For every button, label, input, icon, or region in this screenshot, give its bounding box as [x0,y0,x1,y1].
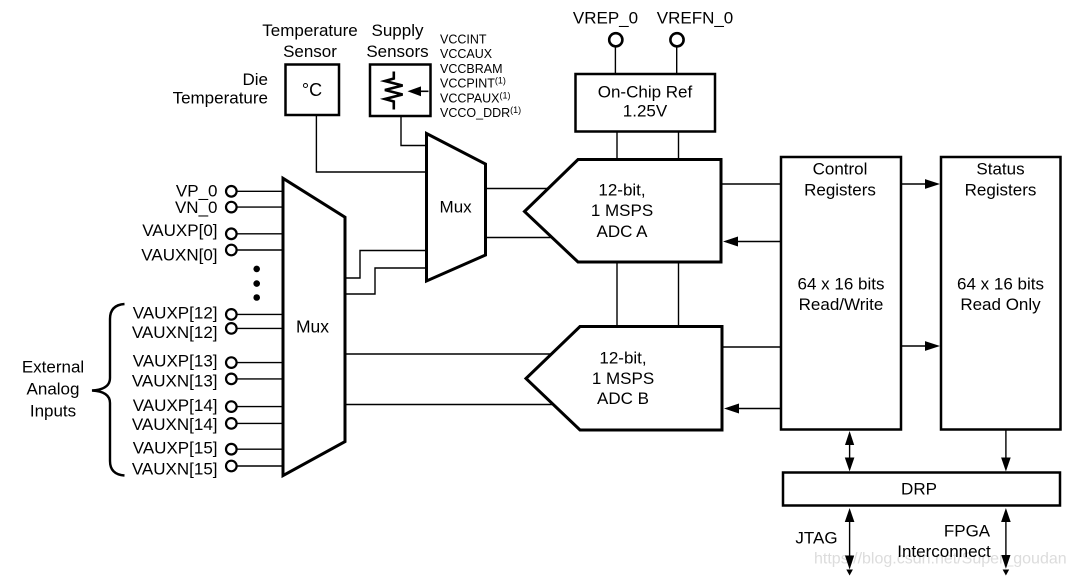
svg-text:Registers: Registers [804,181,876,200]
svg-text:Read Only: Read Only [960,295,1041,314]
svg-text:12-bit,: 12-bit, [598,180,645,199]
svg-text:VAUXP[0]: VAUXP[0] [142,221,217,240]
svg-text:On-Chip Ref: On-Chip Ref [598,83,693,102]
svg-text:Sensors: Sensors [366,42,428,61]
svg-text:JTAG: JTAG [795,529,837,548]
svg-text:VCCINT: VCCINT [440,33,487,47]
svg-text:ADC B: ADC B [597,389,649,408]
svg-text:Read/Write: Read/Write [799,295,884,314]
svg-text:DRP: DRP [901,480,937,499]
svg-text:VAUXP[14]: VAUXP[14] [133,396,218,415]
svg-text:VN_0: VN_0 [175,198,218,217]
svg-text:VAUXN[14]: VAUXN[14] [132,415,218,434]
svg-text:Analog: Analog [27,380,80,399]
svg-text:Die: Die [242,70,268,89]
svg-text:Temperature: Temperature [262,21,357,40]
svg-text:Supply: Supply [372,21,424,40]
svg-text:°C: °C [302,80,322,100]
svg-text:VAUXN[13]: VAUXN[13] [132,372,218,391]
svg-text:1 MSPS: 1 MSPS [591,201,653,220]
svg-text:Interconnect: Interconnect [897,542,991,561]
svg-text:VAUXP[12]: VAUXP[12] [133,304,218,323]
svg-text:12-bit,: 12-bit, [599,349,646,368]
svg-text:Mux: Mux [440,198,473,217]
svg-text:VCCAUX: VCCAUX [440,47,493,61]
svg-text:FPGA: FPGA [944,521,991,540]
svg-text:64 x 16 bits: 64 x 16 bits [798,275,885,294]
svg-text:64 x 16 bits: 64 x 16 bits [957,275,1044,294]
svg-text:1 MSPS: 1 MSPS [592,369,654,388]
svg-text:VAUXP[15]: VAUXP[15] [133,439,218,458]
svg-text:Mux: Mux [296,317,329,337]
svg-text:VCCBRAM: VCCBRAM [440,62,503,76]
svg-text:ADC A: ADC A [596,222,648,241]
svg-text:External: External [22,358,84,377]
svg-text:VCCO_DDR(1): VCCO_DDR(1) [440,105,521,120]
svg-text:VAUXN[0]: VAUXN[0] [141,245,217,264]
svg-text:Sensor: Sensor [283,42,337,61]
svg-text:Registers: Registers [965,181,1037,200]
svg-text:Temperature: Temperature [173,89,268,108]
svg-text:Inputs: Inputs [30,402,76,421]
svg-text:VREP_0: VREP_0 [573,9,638,28]
svg-text:VAUXN[15]: VAUXN[15] [132,459,218,478]
svg-text:Status: Status [976,160,1024,179]
svg-text:Control: Control [813,160,868,179]
svg-text:VREFN_0: VREFN_0 [657,9,734,28]
svg-text:VAUXN[12]: VAUXN[12] [132,323,218,342]
svg-text:1.25V: 1.25V [623,102,668,121]
svg-text:VAUXP[13]: VAUXP[13] [133,352,218,371]
